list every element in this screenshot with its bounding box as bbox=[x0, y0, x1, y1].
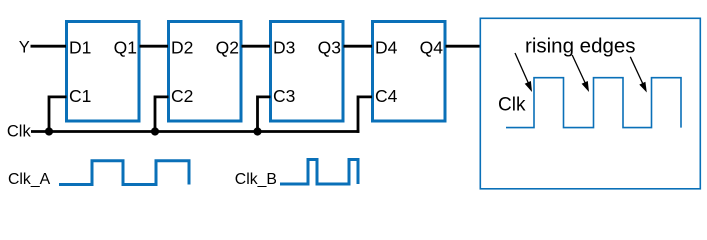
wire Clk to C4 bbox=[358, 97, 372, 133]
wire Clk to C1 bbox=[49, 97, 67, 133]
flip-flop U2 bbox=[169, 22, 242, 122]
junction at C1 tap bbox=[45, 127, 53, 135]
wire Clk to C2 bbox=[155, 97, 169, 133]
svg-text:D2: D2 bbox=[171, 37, 193, 57]
flip-flop U4 bbox=[373, 22, 446, 122]
svg-text:Clk_B: Clk_B bbox=[235, 171, 277, 188]
svg-text:Q1: Q1 bbox=[114, 37, 137, 57]
svg-text:Q4: Q4 bbox=[420, 37, 444, 57]
arrow to rising edge 3 bbox=[630, 57, 647, 93]
wire Clk bus bbox=[31, 130, 359, 133]
svg-text:Y: Y bbox=[19, 39, 30, 57]
inset panel frame bbox=[480, 18, 700, 189]
arrow to rising edge 2 bbox=[572, 55, 589, 92]
svg-text:Clk: Clk bbox=[498, 95, 526, 116]
flip-flop U3 bbox=[271, 22, 344, 122]
svg-text:D1: D1 bbox=[69, 37, 91, 57]
svg-text:C3: C3 bbox=[273, 86, 295, 106]
svg-text:C4: C4 bbox=[375, 86, 398, 106]
wire Q1 to D2 bbox=[140, 45, 169, 48]
junction at C2 tap bbox=[151, 127, 159, 135]
wire Q4 output bbox=[446, 45, 481, 48]
arrow to rising edge 1 bbox=[515, 53, 532, 92]
wire Q3 to D4 bbox=[344, 45, 373, 48]
svg-text:C1: C1 bbox=[69, 86, 91, 106]
svg-text:C2: C2 bbox=[171, 86, 193, 106]
flip-flop U1 bbox=[67, 22, 140, 122]
svg-text:Q3: Q3 bbox=[318, 37, 341, 57]
waveform Clk_B bbox=[280, 160, 358, 185]
waveform Clk (inset) bbox=[506, 78, 681, 128]
svg-text:Clk: Clk bbox=[7, 123, 32, 141]
svg-text:D4: D4 bbox=[375, 37, 398, 57]
svg-text:Clk_A: Clk_A bbox=[8, 171, 51, 188]
svg-text:Q2: Q2 bbox=[216, 37, 239, 57]
waveform Clk_A bbox=[59, 161, 189, 185]
wire Clk to C3 bbox=[258, 97, 271, 133]
wire Y to D1 bbox=[31, 45, 67, 48]
wire Q2 to D3 bbox=[242, 45, 271, 48]
junction at C3 tap bbox=[253, 127, 261, 135]
svg-text:rising edges: rising edges bbox=[525, 34, 636, 57]
svg-text:D3: D3 bbox=[273, 37, 295, 57]
